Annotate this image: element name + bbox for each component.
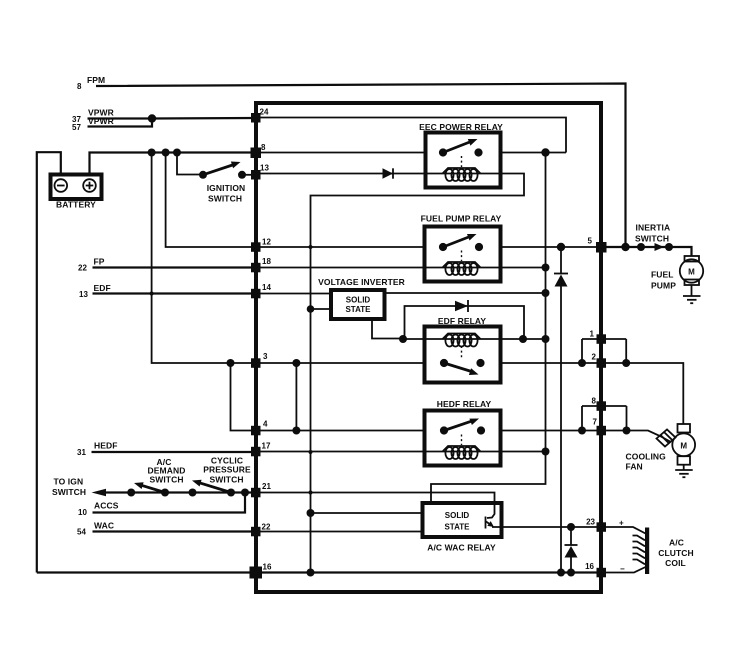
svg-text:8: 8 bbox=[77, 82, 82, 91]
A/C demand switch S2 bbox=[127, 457, 185, 497]
wire VPWR 37 bbox=[88, 117, 153, 119]
svg-text:STATE: STATE bbox=[444, 523, 470, 532]
junction x310 pin17 row bbox=[309, 450, 313, 454]
wire B+ drop to ignition switch bbox=[177, 153, 203, 175]
ground cooling fan bbox=[675, 465, 693, 478]
wire FPM net bbox=[96, 84, 626, 248]
wire HEDF net (pin 17) bbox=[92, 451, 257, 453]
wire VPWR 57 bbox=[88, 119, 153, 127]
svg-text:8: 8 bbox=[592, 397, 597, 406]
wire ignition switch to pin 13 bbox=[242, 174, 256, 176]
wire EDF coil right to switched VPWR bbox=[501, 338, 546, 340]
junction switched VPWR at 545 bbox=[541, 148, 549, 156]
junction CR4 ground bus bbox=[567, 569, 575, 577]
svg-text:HEDF RELAY: HEDF RELAY bbox=[437, 399, 492, 409]
wire EEC coil return loop to x310 vertical bbox=[311, 174, 525, 573]
svg-text:7: 7 bbox=[593, 418, 598, 427]
svg-text:A/C WAC RELAY: A/C WAC RELAY bbox=[427, 543, 496, 553]
fan blades symbol bbox=[657, 430, 676, 447]
svg-text:12: 12 bbox=[262, 238, 271, 247]
svg-text:23: 23 bbox=[586, 518, 595, 527]
pin 7 bbox=[593, 418, 606, 436]
A/C clutch coil L1 bbox=[633, 528, 694, 575]
wire HEDF switch output to pin 7 bbox=[501, 430, 602, 432]
svg-text:VPWR: VPWR bbox=[88, 116, 114, 126]
svg-text:13: 13 bbox=[260, 164, 269, 173]
pin 22 bbox=[251, 523, 271, 537]
wire FP net (pin 18) bbox=[93, 266, 257, 268]
junction pin1 right leg bbox=[622, 359, 630, 367]
svg-text:2: 2 bbox=[592, 353, 597, 362]
junction x310 ground bus bbox=[307, 569, 315, 577]
pin 13 bbox=[251, 164, 269, 180]
cyclic pressure switch S3 bbox=[189, 456, 252, 497]
wire ground bus pin 16 row bbox=[37, 571, 601, 573]
diode CR3 pin5 to ground bus bbox=[554, 247, 568, 573]
svg-text:−: − bbox=[620, 565, 625, 574]
wire pin 4 internal to HEDF switch bbox=[256, 430, 425, 432]
pin 24 bbox=[251, 108, 269, 123]
voltage inverter U2 bbox=[318, 277, 405, 319]
wire pin 8 internal to EEC relay bbox=[256, 152, 426, 154]
svg-text:COIL: COIL bbox=[665, 558, 686, 568]
wire pin8 left leg bbox=[581, 406, 583, 431]
junction inverter switched VPWR bbox=[542, 289, 550, 297]
wire x310 to inverter lower input bbox=[311, 308, 332, 310]
wire pin1 right leg bbox=[625, 339, 627, 363]
transistor Q1 in WAC relay bbox=[486, 517, 495, 529]
junction FP coil switched VPWR bbox=[542, 264, 550, 272]
wire pin 24 VPWR internal to EEC relay contact bbox=[256, 118, 566, 153]
wire inverter output to EDF coil bbox=[372, 319, 403, 339]
wire B+ down to pin12 row bbox=[166, 153, 256, 248]
wire battery positive to main B+ line bbox=[90, 153, 257, 175]
svg-text:COOLING: COOLING bbox=[626, 452, 667, 462]
svg-text:STATE: STATE bbox=[345, 305, 371, 314]
wire pin8 right leg bbox=[626, 406, 628, 431]
wire pin 18 internal to FP coil bbox=[256, 267, 426, 269]
fuel pump relay K2 bbox=[421, 214, 502, 282]
wire EEC relay contact output bbox=[501, 152, 567, 154]
EEC module box U1 bbox=[256, 103, 601, 592]
junction pin1 left leg bbox=[578, 359, 586, 367]
svg-text:VOLTAGE INVERTER: VOLTAGE INVERTER bbox=[318, 277, 405, 287]
wire pin 21 row to ign switch with arrow bbox=[104, 491, 256, 493]
wire EDF net (pin 14) bbox=[93, 292, 257, 294]
wire pin1 left leg bbox=[581, 339, 583, 363]
pin 16 left bbox=[250, 563, 272, 579]
junction x310 inverter input bbox=[307, 305, 315, 313]
pin 12 bbox=[251, 238, 271, 252]
svg-text:FUEL PUMP RELAY: FUEL PUMP RELAY bbox=[421, 214, 502, 224]
svg-text:FUEL: FUEL bbox=[651, 270, 674, 280]
junction CR3 pin5 line bbox=[557, 243, 565, 251]
svg-text:57: 57 bbox=[72, 123, 81, 132]
svg-text:5: 5 bbox=[588, 237, 593, 246]
pin 1 bbox=[590, 330, 606, 344]
wire FP coil to switched VPWR bbox=[501, 267, 546, 269]
svg-text:M: M bbox=[680, 441, 687, 450]
svg-text:24: 24 bbox=[260, 108, 269, 117]
svg-text:3: 3 bbox=[263, 352, 268, 361]
wire FP relay contact output to pin 5 bbox=[501, 246, 602, 248]
svg-text:31: 31 bbox=[77, 448, 86, 457]
junction EDF coil diode right bbox=[519, 335, 527, 343]
ignition switch S1 bbox=[199, 162, 246, 204]
svg-text:HEDF: HEDF bbox=[94, 441, 118, 451]
svg-text:21: 21 bbox=[262, 482, 271, 491]
svg-text:54: 54 bbox=[77, 528, 86, 537]
wire pin 23 to clutch coil bbox=[601, 527, 646, 534]
wire x296 link pin3 to pin4 bbox=[295, 363, 297, 431]
wire pin 22 internal to WAC relay bbox=[256, 531, 423, 533]
svg-text:BATTERY: BATTERY bbox=[56, 200, 96, 210]
svg-text:16: 16 bbox=[585, 562, 594, 571]
svg-text:+: + bbox=[619, 519, 624, 528]
cooling fan motor M2 bbox=[626, 424, 696, 472]
pin 8 bbox=[251, 143, 267, 158]
junction ACCS joins pin21 row bbox=[241, 489, 249, 497]
svg-text:14: 14 bbox=[262, 283, 271, 292]
junction HEDF coil switched VPWR bbox=[542, 448, 550, 456]
inertia switch S4 bbox=[635, 223, 673, 252]
pin 8 right bbox=[592, 397, 606, 411]
svg-text:SOLID: SOLID bbox=[445, 511, 470, 520]
wire pin 14 internal to voltage inverter bbox=[256, 293, 331, 295]
pin 17 bbox=[251, 442, 271, 457]
svg-text:FPM: FPM bbox=[87, 75, 105, 85]
wire WAC output to pin 23 bbox=[492, 526, 601, 528]
svg-text:8: 8 bbox=[261, 143, 266, 152]
wire x310 to WAC relay input bbox=[311, 512, 423, 514]
svg-text:SWITCH: SWITCH bbox=[208, 193, 242, 203]
HEDF relay K4 bbox=[425, 399, 501, 466]
wire HEDF coil to switched VPWR bbox=[501, 451, 546, 453]
wire pin 12 internal to FP relay bbox=[256, 246, 426, 248]
svg-text:SWITCH: SWITCH bbox=[52, 487, 86, 497]
svg-text:FAN: FAN bbox=[626, 462, 643, 472]
pin 4 bbox=[251, 420, 268, 436]
wire pin 16 to clutch coil bbox=[601, 567, 646, 573]
wire pin 13 internal to EEC coil bbox=[256, 173, 426, 175]
wire ACCS net (pin 10) bbox=[93, 493, 246, 513]
junction EDF coil switched VPWR bbox=[542, 335, 550, 343]
junction EDF coil left bbox=[399, 335, 407, 343]
pin 5 bbox=[588, 237, 607, 253]
svg-text:M: M bbox=[688, 268, 695, 277]
svg-text:10: 10 bbox=[78, 508, 87, 517]
wire pin 1 stub bbox=[582, 338, 626, 340]
wire pin 3 internal to EDF switch bbox=[256, 362, 425, 364]
wire switched VPWR vertical x545 bbox=[431, 153, 546, 504]
wire B+ down to pin3 row bbox=[152, 153, 256, 364]
wire pin 2 to cooling fan bbox=[601, 363, 683, 424]
wire battery negative to ground bus bbox=[37, 152, 61, 572]
diode CR1 on pin 13 line bbox=[383, 168, 394, 178]
svg-text:SWITCH: SWITCH bbox=[209, 475, 243, 485]
pin 2 bbox=[592, 353, 606, 368]
junction x310 pin12 row bbox=[309, 245, 313, 249]
junction pin8 right leg bbox=[623, 427, 631, 435]
svg-text:PRESSURE: PRESSURE bbox=[203, 465, 251, 475]
A/C WAC relay K5 solid state bbox=[423, 503, 502, 553]
svg-text:22: 22 bbox=[262, 523, 271, 532]
svg-text:WAC: WAC bbox=[94, 521, 114, 531]
junction x152 on EDF line bbox=[150, 292, 154, 296]
wire pin 8 stub bbox=[582, 405, 627, 407]
wire pin 4 external stub bbox=[231, 363, 257, 431]
svg-text:SWITCH: SWITCH bbox=[635, 234, 669, 244]
junction VPWR bbox=[148, 114, 156, 122]
pin 18 bbox=[251, 257, 271, 272]
pin 3 bbox=[251, 352, 268, 368]
diode CR2 loop across EDF coil bbox=[405, 300, 525, 339]
arrow to ign switch bbox=[92, 489, 107, 496]
svg-text:IGNITION: IGNITION bbox=[207, 183, 246, 193]
ground fuel pump bbox=[683, 285, 701, 303]
svg-text:A/C: A/C bbox=[669, 538, 684, 548]
battery BT1 bbox=[51, 175, 102, 210]
pin 23 bbox=[586, 518, 606, 532]
wire VPWR to pin 24 bbox=[152, 117, 256, 120]
diode CR4 pin23 to pin16 bbox=[565, 527, 578, 573]
svg-text:PUMP: PUMP bbox=[651, 281, 676, 291]
pin 21 bbox=[251, 482, 271, 497]
junction CR3 ground bus bbox=[557, 569, 565, 577]
junction x310 WAC input bbox=[307, 509, 315, 517]
junction B+ at x177 bbox=[173, 149, 181, 157]
junction x296 pin3 bbox=[292, 359, 300, 367]
svg-text:SOLID: SOLID bbox=[346, 296, 371, 305]
fuel pump motor M1 bbox=[651, 256, 703, 291]
svg-text:SWITCH: SWITCH bbox=[149, 475, 183, 485]
pin 14 bbox=[251, 283, 271, 298]
svg-text:ACCS: ACCS bbox=[94, 501, 119, 511]
svg-text:22: 22 bbox=[78, 264, 87, 273]
junction pin8 left leg bbox=[578, 427, 586, 435]
svg-text:17: 17 bbox=[262, 442, 271, 451]
junction x296 pin4 bbox=[292, 427, 300, 435]
svg-text:CLUTCH: CLUTCH bbox=[658, 548, 694, 558]
svg-text:16: 16 bbox=[263, 563, 272, 572]
junction x310 pin21 row bbox=[309, 491, 313, 495]
pin 16 right bbox=[585, 562, 606, 577]
EEC power relay K1 bbox=[419, 122, 503, 188]
wire inverter to switched VPWR bbox=[385, 292, 546, 294]
wire pin 7 to cooling fan bbox=[601, 431, 671, 443]
svg-text:TO IGN: TO IGN bbox=[54, 477, 84, 487]
junction FPM on pin5 line bbox=[621, 243, 629, 251]
svg-text:18: 18 bbox=[262, 257, 271, 266]
svg-text:EDF: EDF bbox=[94, 283, 111, 293]
svg-text:13: 13 bbox=[79, 290, 88, 299]
EDF relay K3 bbox=[425, 316, 501, 383]
wire EDF coil left stub bbox=[403, 338, 425, 340]
junction CR4 pin23 line bbox=[567, 523, 575, 531]
svg-text:INERTIA: INERTIA bbox=[636, 223, 671, 233]
svg-text:4: 4 bbox=[263, 420, 268, 429]
junction B+ at x166 bbox=[162, 149, 170, 157]
junction pin3 row x230 bbox=[227, 359, 235, 367]
wire pin 17 internal to HEDF coil bbox=[256, 451, 425, 453]
wire pin 5 to fuel pump bbox=[601, 247, 692, 256]
wire pin 21 internal to WAC relay bbox=[256, 493, 495, 519]
junction B+ at x152 bbox=[148, 149, 156, 157]
svg-text:FP: FP bbox=[94, 257, 105, 267]
wire EDF switch output to pin 2 bbox=[501, 362, 602, 364]
svg-text:1: 1 bbox=[590, 330, 595, 339]
wire WAC net (pin 54) bbox=[93, 530, 257, 532]
